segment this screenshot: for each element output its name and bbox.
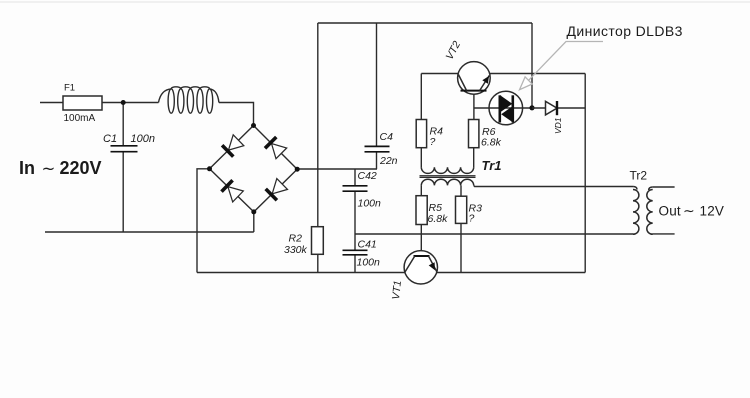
svg-text:100n: 100n [358, 198, 382, 210]
wire: bridge left node to negative bus [197, 169, 210, 273]
wire: R4 top lead [420, 74, 422, 120]
junction: dinistor/VD1 node [529, 105, 534, 110]
svg-text:Tr1: Tr1 [482, 158, 502, 173]
junction: bridge bottom node [251, 209, 256, 214]
wire: junction to C1 top [122, 103, 124, 146]
net label: In ~ 220V [19, 158, 102, 178]
transformer Tr1 secondary winding [421, 179, 473, 185]
wire: top rail left vertical to R2 [317, 23, 319, 227]
svg-text:∼: ∼ [42, 160, 56, 178]
svg-text:100n: 100n [131, 133, 155, 145]
wire: bridge bottom node lead [253, 212, 255, 232]
wire: AC neutral input [45, 231, 254, 233]
wire: top rail right vertical to dinistor node [531, 23, 533, 108]
wire: R3 top lead from winding tap [460, 185, 462, 196]
inductor L1 (mains filter choke) [159, 87, 219, 113]
resistor R6 [469, 120, 479, 148]
svg-text:C41: C41 [358, 239, 377, 251]
svg-text:C1: C1 [103, 133, 117, 145]
capacitor C42 [343, 186, 368, 191]
resistor R3 [456, 196, 467, 223]
wire: right vertical bus [584, 74, 586, 273]
wire: inductor to bridge top node [219, 103, 254, 126]
wire: VT2 collector wire left [421, 73, 458, 75]
svg-text:VT1: VT1 [390, 280, 404, 300]
svg-text:R2: R2 [289, 233, 303, 245]
svg-text:6.8k: 6.8k [481, 137, 502, 149]
wire: R4 bottom lead [420, 148, 422, 168]
svg-text:In: In [19, 158, 35, 178]
dinistor VS1 (DB3) [474, 91, 532, 125]
transformer Tr1 core [420, 176, 476, 178]
transformer Tr2 primary winding [633, 187, 639, 235]
svg-text:330k: 330k [284, 244, 308, 256]
svg-text:VD1: VD1 [553, 117, 563, 134]
transistor VT1 [404, 251, 437, 284]
wire: Tr2 output stub top [652, 186, 674, 188]
svg-text:12V: 12V [700, 204, 725, 219]
bridge diode VD-bottomright [266, 179, 288, 201]
bridge diode VD-bottomleft [222, 180, 244, 202]
wire: capacitor midpoint to Tr2 bottom [355, 233, 633, 235]
wire: dinistor node to VD1 to right bus [532, 107, 585, 109]
wire: R5 top lead [420, 185, 422, 195]
svg-text:Динистор DLDB3: Динистор DLDB3 [567, 23, 683, 39]
wire: R3 bottom lead [460, 223, 462, 272]
svg-text:∼: ∼ [683, 203, 695, 219]
fuse F1 [63, 96, 102, 110]
svg-text:6.8k: 6.8k [428, 213, 449, 225]
transistor VT2 [458, 62, 491, 95]
svg-text:C42: C42 [358, 170, 377, 182]
wire: Tr2 output stub bottom [652, 233, 674, 235]
bridge diode VD-topleft [222, 135, 244, 157]
resistor R2 [312, 227, 324, 255]
wire: AC live input to fuse [40, 102, 63, 104]
wire: Tr1 secondary to Tr2 top [474, 185, 634, 186]
junction: fuse/C1 node [121, 100, 126, 105]
wire: R6 bottom lead [473, 148, 475, 168]
faint top border [0, 1, 750, 3]
junction: bridge top node [251, 123, 256, 128]
resistor R4 [416, 120, 426, 148]
wire: bottom ground rail [197, 272, 585, 274]
wire: fuse to inductor with junction [102, 102, 159, 104]
bridge diode VD-topright [265, 137, 287, 159]
junction: bridge right node [295, 167, 300, 172]
wire: VT2 emitter wire right [490, 73, 586, 75]
wire: C4 top lead [376, 23, 378, 146]
wire: C42 top lead [354, 169, 356, 186]
wire: C42 to C41 link [354, 191, 356, 250]
wire: R2 bottom lead [317, 254, 319, 272]
svg-text:Tr2: Tr2 [630, 169, 648, 183]
wire: C41 bottom lead [354, 255, 356, 273]
junction: bridge left node [207, 166, 212, 171]
svg-text:C4: C4 [380, 131, 394, 143]
resistor R5 [416, 196, 427, 225]
wire: R5 to VT1 base [420, 225, 422, 256]
transformer Tr1 primary winding [421, 167, 473, 173]
wire: bridge right node to C4/C42 [297, 168, 377, 170]
svg-text:22n: 22n [379, 155, 398, 167]
svg-text:F1: F1 [64, 83, 75, 94]
svg-text:?: ? [430, 136, 436, 148]
wire: top rail [318, 22, 532, 24]
svg-text:220V: 220V [60, 158, 102, 178]
wire: bridge diamond edges [210, 126, 298, 212]
capacitor C41 [343, 250, 368, 255]
wire: C1 bottom to neutral rail [122, 152, 124, 232]
wire: C4 bottom lead [376, 152, 378, 169]
svg-text:100n: 100n [357, 257, 381, 269]
capacitor C4 [365, 146, 390, 151]
svg-text:Out: Out [659, 204, 681, 219]
svg-text:100mA: 100mA [64, 113, 96, 124]
capacitor C1 [111, 146, 138, 152]
transformer Tr2 secondary winding [647, 187, 653, 234]
svg-text:?: ? [469, 213, 475, 225]
diode VD1 [546, 101, 558, 115]
wire: VT2 base lead to R6 [473, 91, 475, 120]
annotation leader line [520, 42, 604, 90]
net label: Out ~ 12V [659, 203, 725, 219]
